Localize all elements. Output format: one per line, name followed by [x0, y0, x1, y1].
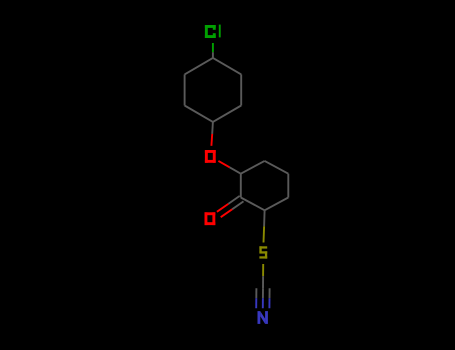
bottom ring bond C3-C4 — [265, 198, 289, 211]
top ring bond 3-4 — [185, 106, 213, 122]
C#N triple bond — [256, 288, 269, 308]
ketone C=O double bond — [217, 196, 244, 217]
top ring bond 6-1 — [213, 58, 241, 75]
bond Cl to ring carbon — [212, 43, 214, 58]
bottom ring bond C6-C1 — [241, 161, 265, 174]
top ring bond 2-3 — [184, 74, 186, 105]
bond ring-O ether — [211, 122, 213, 146]
atom label S — [259, 246, 267, 258]
atom label Cl — [205, 25, 221, 38]
atom label N — [258, 311, 268, 324]
bond O ether-C1 — [218, 161, 240, 174]
atom label O (ether) — [205, 150, 216, 163]
top ring bond 4-5 — [213, 106, 241, 122]
bond S-C thiocyanate — [262, 264, 264, 288]
top ring bond 5-6 — [240, 74, 242, 105]
bottom ring bond C4-C5 — [287, 174, 289, 198]
bottom ring bond C2-C3 — [241, 198, 265, 211]
bottom ring bond C1-C2 — [240, 174, 242, 198]
atom label O (ketone) — [205, 212, 216, 225]
bottom ring bond C5-C6 — [265, 161, 289, 174]
bond C3-S — [264, 210, 265, 242]
top ring bond 1-2 — [185, 58, 213, 75]
